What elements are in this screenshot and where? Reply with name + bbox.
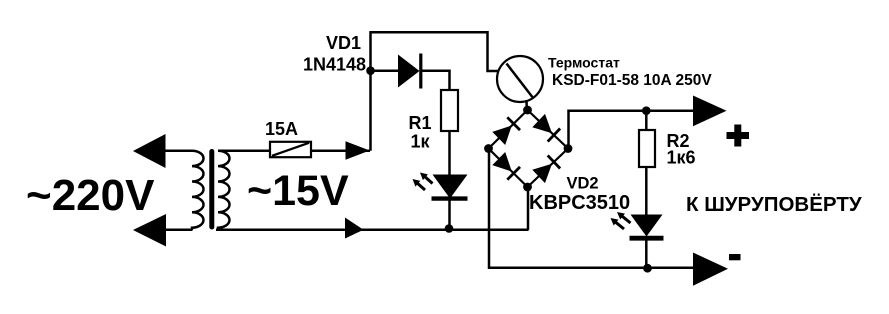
transformer T1 core: [209, 149, 214, 230]
LED HL1 light arrow 1: [416, 182, 425, 190]
label -: [729, 254, 741, 260]
wire thermostat to bridge top vertex: [525, 100, 528, 111]
diode VD1: [398, 55, 420, 88]
junction dot bridge left vertex: [484, 144, 493, 153]
wire plus rail to R2: [645, 111, 648, 131]
svg-text:Термостат: Термостат: [548, 55, 620, 71]
svg-text:К ШУРУПОВЁРТУ: К ШУРУПОВЁРТУ: [686, 193, 862, 216]
wire bridge left vertex down to minus rail: [489, 149, 694, 268]
wire bottom rail up to bridge bottom vertex: [527, 187, 530, 230]
junction dot bridge bottom vertex: [523, 183, 532, 192]
LED HL1 light arrow 2: [424, 176, 433, 184]
svg-text:R1: R1: [409, 113, 432, 133]
wire node A to VD1: [371, 70, 400, 73]
terminal arrow plus output: [693, 96, 727, 127]
wire mains top lead: [164, 149, 193, 152]
bridge diode top-right: [532, 114, 560, 142]
fuse FU1: [270, 142, 311, 157]
junction dot R2 tap: [642, 106, 651, 115]
bridge diode bottom-right: [532, 155, 560, 183]
bridge diode top-left: [492, 117, 520, 145]
svg-text:~220V: ~220V: [26, 171, 155, 220]
svg-text:1к: 1к: [411, 132, 431, 152]
svg-text:~15V: ~15V: [247, 167, 349, 215]
svg-text:KBPC3510: KBPC3510: [529, 192, 630, 214]
svg-text:1N4148: 1N4148: [303, 55, 366, 75]
svg-text:1к6: 1к6: [667, 148, 696, 168]
flow arrow on bottom AC wire: [345, 218, 364, 239]
wire bridge right vertex to plus rail: [569, 111, 695, 149]
junction dot node A (VD1 tap): [366, 66, 375, 75]
wire mains bottom lead: [164, 229, 193, 232]
wire bottom AC rail: [216, 229, 529, 232]
resistor R2: [639, 130, 655, 167]
terminal arrow mains bottom: [133, 214, 166, 247]
junction dot bridge right vertex: [564, 144, 573, 153]
svg-text:KSD-F01-58 10A 250V: KSD-F01-58 10A 250V: [552, 72, 712, 89]
terminal arrow minus output: [693, 253, 728, 286]
wire LED2 to minus rail: [645, 238, 648, 268]
bridge diode bottom-left: [492, 152, 520, 180]
transformer T1 primary winding: [192, 151, 204, 230]
wire R2 to LED2: [645, 167, 648, 215]
thermostat SF1: [497, 56, 543, 102]
junction dot bridge top vertex: [523, 106, 532, 115]
resistor R1: [441, 90, 458, 131]
wire AC riser (node A up): [369, 31, 372, 151]
wire VD1 to R1: [421, 71, 450, 91]
wire secondary top to fuse: [218, 149, 270, 152]
wire LED1 to bottom AC rail: [448, 199, 451, 230]
wire fuse to node A: [311, 149, 370, 152]
LED HL2: [631, 215, 663, 237]
label +: [727, 125, 750, 147]
LED HL1: [433, 175, 468, 199]
transformer T1 secondary winding: [218, 151, 230, 230]
junction dot LED2-minus rail: [643, 264, 652, 273]
terminal arrow mains top: [133, 134, 166, 168]
wire top rail to thermostat: [370, 32, 499, 71]
LED HL2 light arrow 1: [621, 215, 631, 223]
flow arrow on top AC wire: [346, 141, 370, 160]
LED HL2 light arrow 2: [614, 221, 624, 229]
wire R1 to LED1: [448, 131, 451, 175]
bridge rectifier VD2 frame: [489, 110, 569, 187]
svg-text:VD2: VD2: [567, 175, 599, 193]
svg-text:15A: 15A: [265, 119, 298, 139]
junction dot LED1-rail: [445, 224, 454, 233]
svg-text:VD1: VD1: [326, 33, 361, 53]
